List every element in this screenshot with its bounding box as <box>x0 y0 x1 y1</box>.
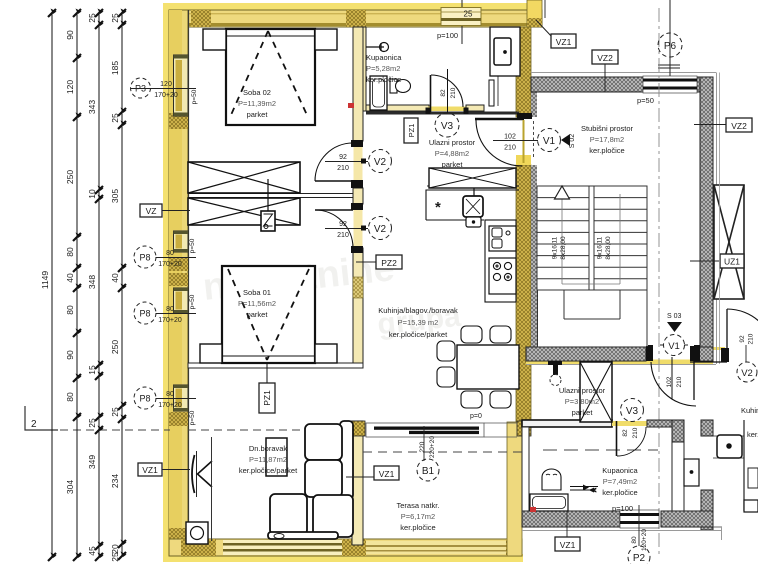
apt2 bottom window P2 <box>620 510 659 528</box>
door apt2 bath <box>617 421 647 456</box>
P3 circle <box>131 78 199 104</box>
PZ1 leader below bed <box>266 363 268 385</box>
terasa label <box>397 501 440 532</box>
V1 circle apt2 (under stairs) <box>660 335 688 388</box>
svg-text:Stubišni prostor: Stubišni prostor <box>581 124 634 133</box>
soba02 label <box>238 88 276 119</box>
svg-text:p=50: p=50 <box>637 96 654 105</box>
toilet wc1 <box>390 79 411 93</box>
svg-text:170+20: 170+20 <box>158 402 182 409</box>
svg-text:250: 250 <box>65 170 75 184</box>
svg-text:45: 45 <box>87 546 97 556</box>
VZ1 box living mid <box>346 466 399 480</box>
chain total 1149 <box>51 13 53 557</box>
dnevni boravak label <box>239 444 298 475</box>
svg-text:V2: V2 <box>374 157 387 168</box>
svg-text:210: 210 <box>504 145 516 152</box>
svg-text:ker.pločice/parket: ker.pločice/parket <box>389 330 448 339</box>
svg-text:VZ: VZ <box>146 206 157 216</box>
kupaonica2 label <box>602 466 638 497</box>
svg-text:S 02: S 02 <box>569 134 576 149</box>
svg-text:10: 10 <box>87 189 97 199</box>
svg-text:220+20: 220+20 <box>429 436 436 458</box>
svg-text:9x16|11: 9x16|11 <box>597 236 604 259</box>
svg-text:15: 15 <box>87 365 97 375</box>
svg-text:PZ1: PZ1 <box>407 124 416 138</box>
hatch block on hall wall <box>353 277 363 298</box>
apt2 vert wall hatch (toilet nook left) <box>672 420 684 442</box>
outer face line above staircase top wall <box>531 72 716 74</box>
S02 marker: triangle + text <box>561 134 576 149</box>
boiler <box>463 188 483 227</box>
svg-text:92: 92 <box>339 154 347 161</box>
UZ1 label <box>690 260 722 262</box>
bottom wall <box>169 539 522 556</box>
apt2 bath top wall <box>522 420 612 427</box>
apt2 toilet nook side lines <box>672 442 684 511</box>
top window centerline + p=100 <box>461 0 463 44</box>
svg-text:ker.pločice: ker.pločice <box>400 523 435 532</box>
bed soba01 <box>222 266 315 363</box>
kitchen closet bottom line <box>427 186 519 190</box>
svg-text:P=15,39 m2: P=15,39 m2 <box>398 318 439 327</box>
VZ1 box apt2 bottom <box>555 511 580 551</box>
svg-text:Ulazni prostor: Ulazni prostor <box>429 138 476 147</box>
svg-text:210: 210 <box>676 376 683 387</box>
glow left <box>163 3 170 559</box>
PZ2 box <box>356 255 402 269</box>
VZ box left upper <box>140 204 190 217</box>
bed soba02 dashed blanket <box>231 31 307 115</box>
svg-text:90: 90 <box>65 350 75 360</box>
terrace door B1 assembly <box>366 423 517 437</box>
B1 circle terrace <box>417 436 439 481</box>
hatch block right end of terrace door wall <box>517 421 531 436</box>
chain 3 <box>98 13 100 557</box>
top wall hatch block3 <box>346 10 366 27</box>
svg-text:170+20: 170+20 <box>158 261 182 268</box>
shaft UZ1 <box>714 185 744 299</box>
door V2 soba01 <box>315 210 353 248</box>
svg-text:210: 210 <box>748 333 755 344</box>
chain 4 <box>121 13 123 556</box>
svg-text:Kuhinja/blagov./boravak: Kuhinja/blagov./boravak <box>378 306 458 315</box>
svg-text:210: 210 <box>632 427 639 438</box>
chairs <box>437 326 511 408</box>
svg-text:p=100: p=100 <box>437 31 458 40</box>
neighbour far right wall piece above <box>719 73 721 365</box>
svg-text:8x28,00: 8x28,00 <box>560 236 567 260</box>
neighbour kitchen right area lines <box>743 420 745 511</box>
svg-text:25: 25 <box>110 113 120 123</box>
VZ2 box right <box>694 118 752 132</box>
entry closet X <box>429 168 516 188</box>
svg-text:V2: V2 <box>741 368 753 379</box>
sofa foot oval <box>274 534 284 539</box>
shaft niche right of bathroom1 <box>489 27 520 106</box>
svg-text:Kupaonica: Kupaonica <box>366 53 402 62</box>
svg-text:P=17,8m2: P=17,8m2 <box>590 135 624 144</box>
staircase window top <box>643 65 697 93</box>
P8 circle c <box>134 387 196 425</box>
top wall hatch corner <box>169 10 188 27</box>
wall piece right of V3 door <box>466 105 484 111</box>
svg-text:ker.pločice: ker.pločice <box>366 75 401 84</box>
apt2 right wall hatch bottom <box>701 490 713 530</box>
svg-text:Soba 01: Soba 01 <box>243 288 271 297</box>
svg-text:Ulazni prostor: Ulazni prostor <box>559 386 606 395</box>
V3 circle bath1 <box>435 87 459 137</box>
door V2 soba02 <box>315 143 353 181</box>
stair outline <box>537 186 647 290</box>
bathroom1 left wall <box>360 27 366 111</box>
dining table <box>457 345 519 389</box>
stair walkline <box>562 194 620 284</box>
svg-text:170+20: 170+20 <box>154 92 178 99</box>
VZ1 box left lower <box>138 463 190 476</box>
svg-text:P=11,39m2: P=11,39m2 <box>238 99 276 108</box>
V2 circle soba01 <box>325 217 392 240</box>
nightstand left <box>203 29 226 50</box>
window P8 b <box>174 288 189 313</box>
TV on left wall <box>192 451 212 497</box>
svg-text:82: 82 <box>622 429 629 437</box>
svg-text:P8: P8 <box>139 253 150 263</box>
svg-text:Dn.boravak: Dn.boravak <box>249 444 288 453</box>
ulazni prostor2 label <box>559 386 606 417</box>
rooms/hall wall lower (right of Soba01) <box>353 248 363 368</box>
black cap left of stair door <box>646 346 652 361</box>
yellow sill line at stair bottom left piece <box>640 347 652 350</box>
VZ2 box top <box>592 50 618 92</box>
staircase top wall <box>531 77 646 92</box>
svg-text:80: 80 <box>166 250 174 257</box>
svg-text:349: 349 <box>87 455 97 469</box>
neighbour kuhinja label (cut) <box>741 406 758 439</box>
stove <box>489 258 516 294</box>
svg-text:V1: V1 <box>543 136 556 147</box>
svg-text:120: 120 <box>160 81 172 88</box>
svg-text:25: 25 <box>464 10 473 19</box>
svg-text:25: 25 <box>110 407 120 417</box>
svg-text:VZ1: VZ1 <box>142 465 158 475</box>
svg-text:VZ2: VZ2 <box>597 53 613 63</box>
svg-text:92: 92 <box>339 221 347 228</box>
apt2 right wall hatch top <box>701 420 713 436</box>
svg-text:P=5,28m2: P=5,28m2 <box>366 64 400 73</box>
door V1 entry <box>475 113 534 166</box>
svg-text:V2: V2 <box>374 224 387 235</box>
left wall <box>169 10 188 546</box>
svg-text:ker.p: ker.p <box>747 430 758 439</box>
svg-text:ker.pločice/parket: ker.pločice/parket <box>239 466 298 475</box>
nightstand left s01 <box>200 344 222 363</box>
staircase bottom wall <box>526 347 646 361</box>
stair right edge line down to wall <box>646 290 648 347</box>
gray half of staircase wall <box>531 77 537 117</box>
door V3 bath1 <box>426 69 469 114</box>
window P8 c <box>174 385 189 411</box>
svg-text:V3: V3 <box>441 121 454 132</box>
svg-text:≪: ≪ <box>590 488 596 494</box>
wall below Soba01 <box>188 363 363 368</box>
apt2 bath door sill <box>612 421 653 426</box>
S03 marker <box>667 313 682 332</box>
svg-text:1149: 1149 <box>40 271 50 290</box>
kuhinja label <box>378 306 458 339</box>
svg-text:P=11,56m2: P=11,56m2 <box>238 299 276 308</box>
neighbour kitchen small box right edge <box>748 468 758 488</box>
svg-text:80: 80 <box>65 247 75 257</box>
sofa L-shape <box>268 421 353 539</box>
apt2 entry radiator/T symbol <box>548 361 562 386</box>
svg-text:p=50: p=50 <box>189 410 196 425</box>
bathtub <box>370 76 387 110</box>
bathroom1 bottom wall <box>366 105 429 111</box>
P8 circle a <box>134 238 196 268</box>
right wall upper (to staircase, yellow hatch) <box>516 27 531 117</box>
apt2 wc (in nook) <box>684 459 699 486</box>
svg-text:P=3,80m2: P=3,80m2 <box>565 397 599 406</box>
svg-text:Soba 02: Soba 02 <box>243 88 271 97</box>
apt2 wall piece + hatch right of bath door <box>647 420 684 427</box>
kitchen upper counter <box>426 190 516 220</box>
bottom wall parapet (terrace) <box>366 541 506 554</box>
wardrobe niche lines <box>188 194 353 198</box>
svg-text:parket: parket <box>247 310 269 319</box>
treads left flight <box>537 197 589 199</box>
svg-text:220: 220 <box>419 441 426 452</box>
svg-text:80: 80 <box>631 536 638 544</box>
svg-text:25: 25 <box>87 13 97 23</box>
svg-text:92: 92 <box>739 335 746 343</box>
PZ1 box rotated (entry hall) <box>404 118 418 143</box>
svg-text:p=100: p=100 <box>612 504 633 513</box>
V1 circle entry <box>493 129 561 152</box>
svg-text:p=50: p=50 <box>191 89 198 104</box>
V2 circle far right <box>737 333 757 382</box>
svg-text:VZ1: VZ1 <box>556 37 572 47</box>
svg-text:VZ1: VZ1 <box>379 469 395 479</box>
staircase right wall <box>700 77 713 347</box>
wall block between V2 doors <box>353 188 363 204</box>
treads right flight <box>594 197 647 199</box>
svg-text:120: 120 <box>65 80 75 94</box>
P2 circle apt2 bottom <box>628 505 650 564</box>
soba01 label <box>238 288 276 319</box>
svg-text:25: 25 <box>110 552 120 562</box>
svg-text:210: 210 <box>450 87 457 98</box>
axis dash-dot line <box>658 8 660 556</box>
svg-text:25: 25 <box>87 418 97 428</box>
chain 2 <box>76 13 78 557</box>
neighbour small appliance lower <box>744 500 758 512</box>
svg-text:80: 80 <box>166 391 174 398</box>
svg-text:185: 185 <box>110 61 120 75</box>
kitchen right counter <box>485 220 516 302</box>
apt2 bottom wall right <box>661 511 713 527</box>
svg-text:102: 102 <box>666 376 673 387</box>
apt2 washbasin <box>542 469 561 490</box>
svg-text:25: 25 <box>110 13 120 23</box>
svg-text:9x16|11: 9x16|11 <box>552 236 559 259</box>
neighbour stove <box>717 435 742 458</box>
svg-text:P=4,88m2: P=4,88m2 <box>435 149 469 158</box>
svg-text:p=50: p=50 <box>189 238 196 253</box>
top wall <box>169 10 542 27</box>
svg-text:UZ1: UZ1 <box>724 257 740 267</box>
stair up arrow <box>555 186 570 199</box>
svg-text:p=50: p=50 <box>189 294 196 309</box>
svg-text:80: 80 <box>166 306 174 313</box>
svg-text:P=11,87m2: P=11,87m2 <box>249 455 287 464</box>
svg-text:305: 305 <box>110 189 120 203</box>
stubisni prostor label <box>581 124 634 155</box>
flight divider <box>588 186 590 290</box>
bottom wall window (living) <box>223 540 342 555</box>
svg-text:parket: parket <box>572 408 594 417</box>
svg-text:ker.pločice: ker.pločice <box>589 146 624 155</box>
svg-text:250: 250 <box>110 340 120 354</box>
cap below soba02 wall <box>351 140 363 147</box>
staircase top wall corner piece <box>697 77 713 92</box>
svg-text:120+20: 120+20 <box>641 529 648 551</box>
svg-text:210: 210 <box>337 165 349 172</box>
svg-text:210: 210 <box>337 232 349 239</box>
apt2 red mark <box>530 507 536 512</box>
svg-text:P8: P8 <box>139 309 150 319</box>
svg-text:Kupaonica: Kupaonica <box>602 466 638 475</box>
svg-text:PZ1: PZ1 <box>262 390 272 406</box>
left wall hatch blocks <box>169 113 188 129</box>
hatch block at terrace wall top <box>350 421 365 436</box>
svg-text:234: 234 <box>110 474 120 488</box>
top wall hatch block2 <box>191 10 211 27</box>
apt2 bottom wall left <box>522 511 620 527</box>
svg-text:PZ2: PZ2 <box>381 258 397 268</box>
svg-text:Kuhinja: Kuhinja <box>741 406 758 415</box>
bed soba02 <box>226 29 315 125</box>
door apt2 from staircase <box>648 345 700 406</box>
svg-text:80: 80 <box>65 392 75 402</box>
yellow line under staircase bottom wall <box>526 361 713 365</box>
V2 circle soba02 <box>325 150 392 173</box>
svg-text:B1: B1 <box>422 466 435 477</box>
apt2 bath tub <box>530 494 568 511</box>
terrace right wall yellow <box>507 422 522 556</box>
svg-text:p=0: p=0 <box>470 413 482 420</box>
apt2 mirror symbol <box>570 485 598 495</box>
landing below stairs <box>563 290 565 319</box>
washbasin symbol <box>366 43 389 52</box>
svg-text:8x28,00: 8x28,00 <box>605 236 612 260</box>
rooms/hall wall upper (right of Soba02) <box>353 27 363 141</box>
top wall window (p=100) <box>441 8 481 26</box>
svg-text:343: 343 <box>87 100 97 114</box>
B1 leader line <box>423 426 425 461</box>
svg-text:P8: P8 <box>139 394 150 404</box>
window P8 a <box>174 231 189 252</box>
P8 circle b <box>134 294 196 324</box>
bathroom1 door sill V3 <box>428 107 466 112</box>
V3 circle apt2 <box>621 399 644 439</box>
PZ device between wardrobes <box>261 179 275 231</box>
door far right <box>690 309 758 362</box>
top-right yellow hatch corner <box>527 0 542 27</box>
svg-text:Terasa natkr.: Terasa natkr. <box>397 501 440 510</box>
svg-text:90: 90 <box>65 30 75 40</box>
staircase bottom wall right corner <box>694 347 713 361</box>
svg-text:ker.pločice: ker.pločice <box>602 488 637 497</box>
nightstand right <box>315 29 337 50</box>
apt2 bath left wall line <box>522 427 529 511</box>
svg-text:82: 82 <box>440 89 447 97</box>
kupaonica1 label <box>366 53 402 84</box>
svg-text:S 03: S 03 <box>667 313 682 320</box>
black cap right of stair door <box>690 346 695 361</box>
svg-text:parket: parket <box>247 110 269 119</box>
apt2 bottom face lines <box>522 530 722 532</box>
section line 2 <box>25 406 304 430</box>
thick wall base line <box>366 112 519 115</box>
PZ1 box rotated (below soba01) <box>259 383 275 413</box>
svg-text:V1: V1 <box>668 341 680 352</box>
svg-text:P2: P2 <box>633 553 646 564</box>
bed soba01 dashed blanket <box>228 269 309 360</box>
svg-text:304: 304 <box>65 480 75 494</box>
svg-text:*: * <box>435 199 441 216</box>
window P3 in left wall <box>174 55 189 116</box>
P6 circle top <box>658 0 682 76</box>
apt2 entry closet X <box>580 362 612 422</box>
svg-text:348: 348 <box>87 275 97 289</box>
outer face line right of right wall <box>716 73 718 365</box>
svg-text:P=7,49m2: P=7,49m2 <box>603 477 637 486</box>
svg-text:80: 80 <box>65 305 75 315</box>
dashed line terrace <box>363 451 522 453</box>
svg-text:VZ1: VZ1 <box>560 540 576 550</box>
glow bottom <box>163 554 523 562</box>
svg-text:V3: V3 <box>626 406 639 417</box>
red mark <box>348 103 354 108</box>
svg-text:P=6,17m2: P=6,17m2 <box>401 512 435 521</box>
glow top <box>166 3 542 11</box>
svg-text:170+20: 170+20 <box>158 317 182 324</box>
nightstand right s01 <box>315 344 337 363</box>
svg-text:40: 40 <box>65 273 75 283</box>
ulazni prostor1 label <box>429 138 476 169</box>
bottom face line under staircase bottom wall <box>526 364 716 366</box>
VZ1 box top (staircase corner) <box>536 0 576 48</box>
svg-text:102: 102 <box>504 134 516 141</box>
living/terrace wall <box>352 421 363 545</box>
svg-text:parket: parket <box>442 160 464 169</box>
svg-text:VZ2: VZ2 <box>731 121 747 131</box>
square with circle (bottom-left) <box>186 522 208 544</box>
dresser rect in living <box>266 438 287 476</box>
sink unit <box>489 226 516 251</box>
svg-text:40: 40 <box>110 273 120 283</box>
svg-text:2: 2 <box>31 419 37 430</box>
right wall below door V1 <box>516 165 531 422</box>
